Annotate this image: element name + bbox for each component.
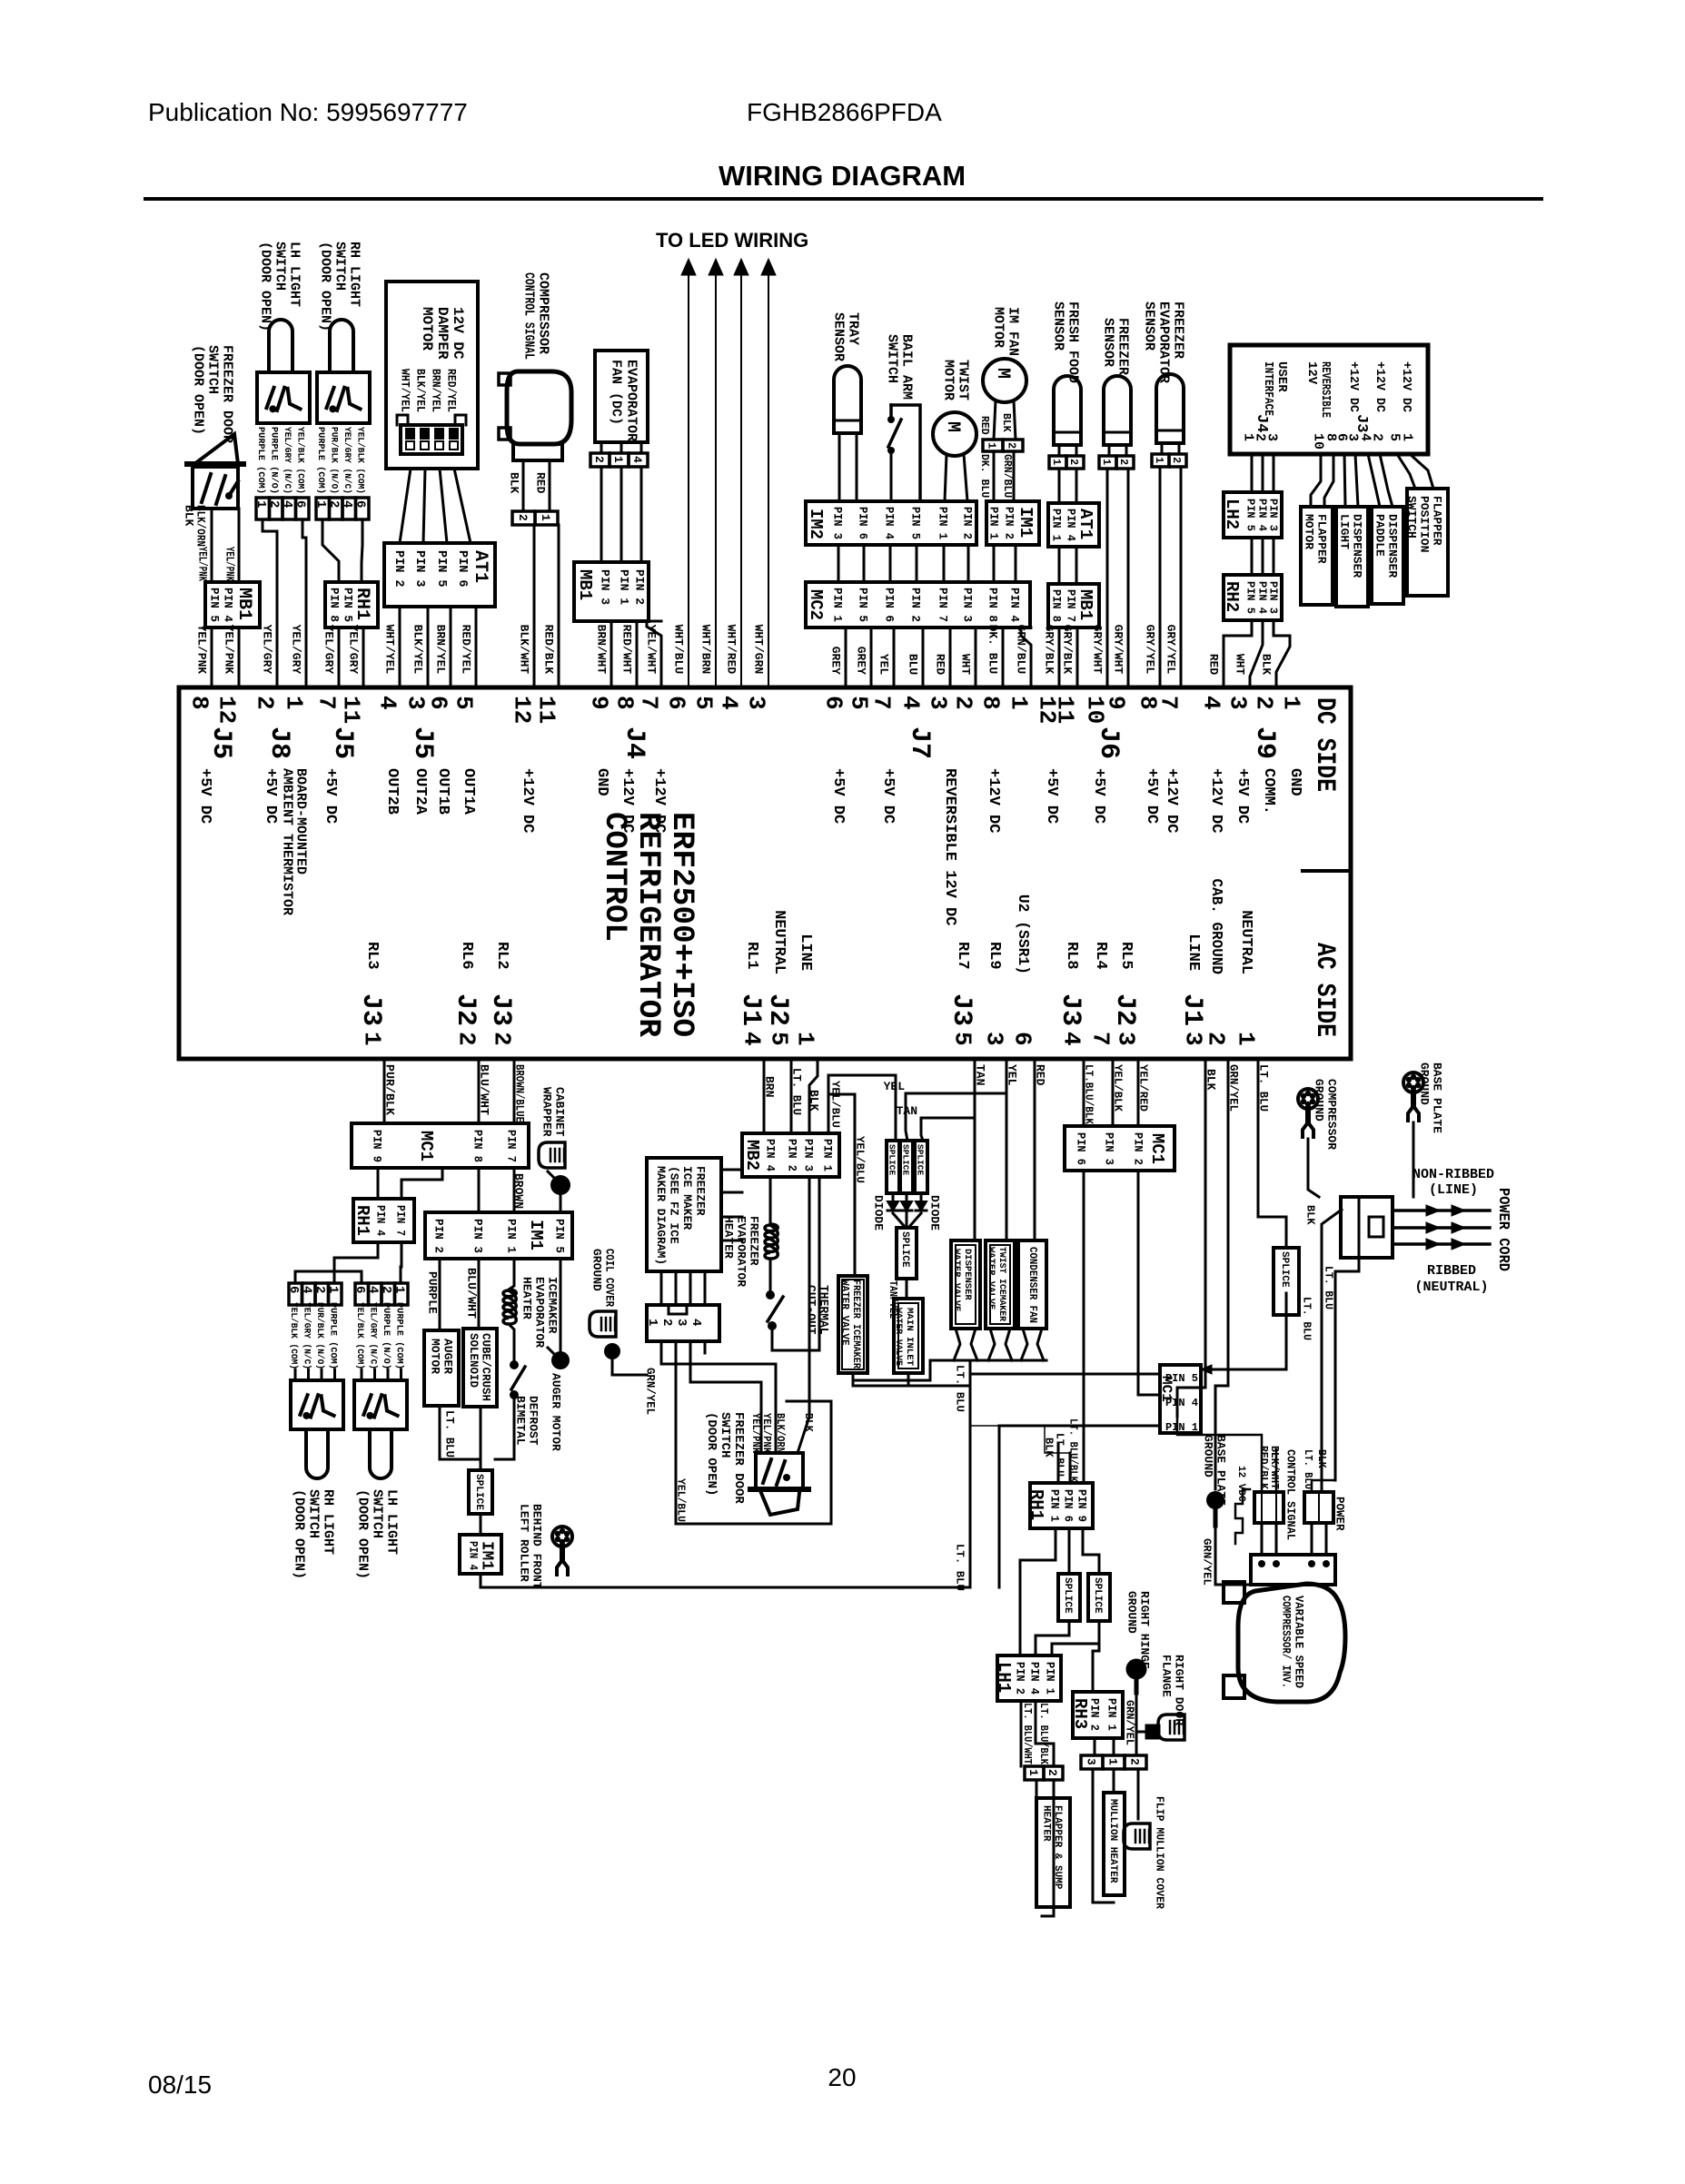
svg-text:RH LIGHT: RH LIGHT [347,242,362,307]
svg-text:RIBBED: RIBBED [1427,1263,1476,1279]
svg-text:PIN 8: PIN 8 [327,588,341,622]
svg-text:PIN 2: PIN 2 [908,588,922,622]
svg-text:WATER VALVE: WATER VALVE [839,1280,850,1346]
lower LH switch connector 6 4 2 1 [355,1283,369,1305]
wire MC1 pin6 long down to RH1 (lower right) [1083,1171,1085,1483]
control signal staircase symbol [1235,1489,1250,1544]
wires LH2 to RH2 [1251,538,1254,575]
svg-text:+5V DC: +5V DC [196,768,213,824]
tray sensor leads [838,433,841,501]
svg-text:PIN 5: PIN 5 [434,550,448,588]
svg-text:8: 8 [186,696,213,710]
svg-text:YEL/BLU: YEL/BLU [854,1136,867,1183]
svg-text:J2: J2 [450,993,481,1026]
connector LH1 [997,1655,1061,1701]
svg-text:J3: J3 [355,993,386,1026]
LH light switch [257,372,310,423]
connector MB1 (freezer door switch) [205,582,260,628]
svg-text:8: 8 [977,696,1005,710]
wire mullion heater circuit [1094,1738,1096,1755]
svg-text:PIN 2: PIN 2 [431,1219,445,1253]
svg-text:1: 1 [313,500,328,508]
wires user interface J4 to LH2 [1251,454,1254,492]
base plate ground terminal (lower) [1206,1491,1224,1509]
svg-text:SPLICE: SPLICE [899,1231,910,1268]
svg-text:GROUND: GROUND [1201,1435,1214,1477]
wire J1-2 GRN/YEL down to base plate ground [1215,1059,1228,1489]
LT. BLU bus below valves [930,1359,1046,1362]
svg-text:DISPENSER: DISPENSER [1385,514,1399,578]
svg-text:7: 7 [1087,1032,1115,1046]
svg-text:PIN 5: PIN 5 [341,588,354,622]
svg-text:4: 4 [689,1319,703,1326]
wire YEL branch to splice 2 [906,1093,1006,1141]
svg-text:M: M [992,368,1013,379]
svg-text:CONDENSER FAN: CONDENSER FAN [1026,1247,1038,1323]
wires RH2 to board J9 [1224,620,1252,687]
svg-text:+5V DC: +5V DC [1043,768,1060,824]
svg-text:SENSOR: SENSOR [1101,318,1116,367]
svg-text:VARIABLE SPEED: VARIABLE SPEED [1292,1596,1305,1688]
wire J1-3 BLK down [1177,1059,1205,1417]
svg-text:BLK: BLK [1304,1205,1317,1225]
svg-text:PIN 7: PIN 7 [936,588,949,622]
defrost bimetal switch [510,1360,519,1369]
svg-text:+5V DC: +5V DC [262,768,279,824]
wire right hinge ground to connector cell 2 [1135,1693,1138,1755]
power cord plug block [1341,1197,1393,1258]
svg-text:REVERSIBLE 12V DC: REVERSIBLE 12V DC [941,768,958,925]
right door flange stub [1146,1725,1159,1738]
svg-text:(DOOR OPEN): (DOOR OPEN) [258,242,273,331]
wire cell2 to flip mullion cover [1137,1769,1140,1819]
svg-text:MAKER DIAGRAM): MAKER DIAGRAM) [654,1166,668,1265]
connector 2|1 (control signal) [512,511,535,525]
svg-text:2: 2 [950,696,977,710]
svg-text:GREY: GREY [854,647,867,675]
svg-text:YEL/PNK: YEL/PNK [223,547,236,581]
wire cell3 down and loop [1093,1769,1114,1902]
svg-text:WATER VALVE: WATER VALVE [986,1247,996,1309]
fresh food sensor leads [1058,445,1061,456]
svg-text:6: 6 [353,500,368,508]
svg-text:POWER CORD: POWER CORD [1494,1188,1512,1271]
IM fan motor leads [994,400,996,440]
svg-text:Publication No: 5995697777: Publication No: 5995697777 [148,98,468,126]
svg-text:DC SIDE: DC SIDE [1309,697,1340,792]
wire J3-5 TAN to dispenser water valve [974,1059,976,1240]
compressor ground terminal [1298,1089,1318,1109]
svg-text:PIN 1: PIN 1 [617,569,630,605]
wire splice to IM1 pin4 box [480,1514,482,1535]
svg-text:1: 1 [281,696,308,710]
svg-text:FLAPPER & SUMP: FLAPPER & SUMP [1052,1805,1063,1890]
icemaker evaporator heater coil [503,1290,516,1324]
svg-text:4: 4 [280,500,294,508]
svg-text:YEL/BLU: YEL/BLU [829,1081,842,1128]
svg-text:RL1: RL1 [743,942,760,970]
svg-text:YEL/BLU: YEL/BLU [675,1478,688,1522]
svg-text:PIN 8: PIN 8 [986,588,999,622]
svg-text:PIN 4: PIN 4 [1028,1662,1041,1695]
svg-text:PIN 9: PIN 9 [370,1130,383,1162]
svg-text:2: 2 [489,1032,516,1046]
svg-text:PIN 6: PIN 6 [1062,1489,1075,1522]
svg-text:PUR/BLK: PUR/BLK [382,1064,396,1115]
svg-text:AT1: AT1 [1075,509,1095,539]
svg-text:RL8: RL8 [1063,942,1080,970]
svg-text:CUT-OUT: CUT-OUT [804,1285,818,1335]
splice A (lower) [1058,1574,1080,1621]
svg-text:+12V DC: +12V DC [619,768,636,833]
svg-text:BLK: BLK [1043,1438,1056,1458]
svg-text:1: 1 [1050,459,1063,465]
splice 2 (diode pack) [900,1141,913,1193]
wire BLK to RH1 pin9 from top [1057,1444,1060,1483]
svg-text:MULLION HEATER: MULLION HEATER [1107,1799,1118,1883]
svg-text:LH LIGHT: LH LIGHT [384,1489,400,1555]
svg-text:LT. BLU/BLK: LT. BLU/BLK [1037,1703,1049,1764]
svg-text:YEL/RED: YEL/RED [1137,1064,1150,1112]
svg-text:5: 5 [766,1032,793,1046]
svg-text:3: 3 [1084,1758,1097,1765]
svg-text:BLK: BLK [1259,654,1273,676]
wires diodes converge to splice [892,1193,895,1201]
wires RH1 to lower light switch connectors [334,1242,378,1283]
svg-text:11: 11 [533,696,560,724]
svg-text:PIN 4: PIN 4 [1064,509,1077,541]
wires AT1 to MB1 [1058,547,1061,584]
svg-text:RED: RED [978,416,990,435]
svg-text:IM2: IM2 [806,509,826,539]
wire splice B to LH1 pin1 and RH3 pin2 [1052,1621,1099,1655]
svg-text:PIN 4: PIN 4 [1256,581,1269,614]
svg-text:PIN 1: PIN 1 [1048,1489,1061,1522]
svg-text:GND: GND [593,768,610,796]
wires LH1 to 1|2 connector [1020,1701,1023,1766]
svg-text:WHT/GRN: WHT/GRN [751,625,765,675]
wire MC1 to RH1 pin7 jog [401,1168,442,1199]
wire J3-1 to MC1 pin9 PUR/BLK [383,1059,386,1123]
svg-text:LIGHT: LIGHT [1337,514,1351,549]
svg-text:HEATER: HEATER [721,1216,735,1259]
svg-text:IM1: IM1 [478,1541,496,1570]
svg-text:FREEZER: FREEZER [747,1216,760,1266]
svg-text:BLK/WHT: BLK/WHT [517,625,530,675]
connector strip 3 1 2 (mullion) [1081,1755,1103,1769]
freezer sensor connector 1|2 [1099,456,1116,469]
svg-text:4: 4 [897,696,925,710]
wire MC1 pin1 horizontal [999,1425,1160,1428]
condenser fan box [1018,1240,1046,1329]
svg-text:SENSOR: SENSOR [1051,301,1066,351]
svg-text:RH1: RH1 [352,1205,372,1236]
svg-text:GRY/YEL: GRY/YEL [1164,625,1177,675]
wire IM1 pin5 down to auger motor [560,1259,562,1352]
svg-text:BLK/WHT: BLK/WHT [1268,1446,1280,1489]
svg-text:6: 6 [293,500,308,508]
svg-text:J6: J6 [1093,726,1124,759]
svg-text:PIN 3: PIN 3 [830,507,844,539]
svg-text:BLK/YEL: BLK/YEL [411,625,424,675]
svg-text:J4: J4 [1253,414,1270,432]
svg-text:1: 1 [986,442,998,449]
svg-text:YEL/PNK: YEL/PNK [749,1413,761,1453]
svg-text:(DOOR OPEN): (DOOR OPEN) [191,345,206,435]
svg-text:6: 6 [1009,1032,1036,1046]
svg-text:(DOOR OPEN): (DOOR OPEN) [292,1489,307,1579]
freezer sensor bulb [1104,376,1131,445]
svg-text:1: 1 [326,1286,341,1293]
svg-text:MOTOR: MOTOR [991,307,1006,348]
wire compressor ground down [1308,1139,1319,1197]
svg-text:9: 9 [586,696,613,710]
svg-text:YEL/GRY (N/C): YEL/GRY (N/C) [342,427,352,494]
wires MB1 to board J4 pins 9 8 7 [610,621,613,687]
control board DC/AC divider [1303,869,1351,873]
svg-text:AUGER MOTOR: AUGER MOTOR [549,1373,562,1451]
svg-text:(LINE): (LINE) [1429,1182,1478,1198]
svg-text:PUR/BLK (N/O): PUR/BLK (N/O) [329,427,340,494]
svg-text:6: 6 [286,1286,301,1293]
wire icemaker pin4 stub [704,1341,707,1353]
wires control signal to connector 2|1 [522,460,525,511]
svg-text:PIN 5: PIN 5 [908,507,922,539]
auger motor box [424,1330,459,1406]
svg-text:PIN 3: PIN 3 [1102,1132,1115,1165]
connector RH1 (lower) [353,1199,414,1242]
wire base plate ground lower grn/yel [1215,1526,1251,1585]
svg-text:GND: GND [1286,768,1303,796]
main inlet water valve box [894,1299,923,1373]
svg-text:RED/WHT: RED/WHT [619,625,633,675]
compressor control signal base [513,444,562,460]
svg-text:SENSOR: SENSOR [831,312,847,361]
svg-text:PIN 3: PIN 3 [960,588,974,622]
svg-text:OUT1A: OUT1A [460,768,477,815]
svg-text:PIN 5: PIN 5 [1165,1372,1198,1385]
svg-text:BLU/WHT: BLU/WHT [477,1064,491,1115]
svg-text:YEL/GRY (N/C): YEL/GRY (N/C) [282,427,292,494]
IM fan motor circle [983,359,1026,402]
svg-text:LT. BLU: LT. BLU [954,1365,966,1412]
svg-text:1: 1 [792,1032,819,1046]
wire J3-2 to MC1 pin7 BROWN/BLUE [513,1059,516,1123]
wire IM1 pin2 PURPLE to auger motor box [439,1259,441,1330]
wires freezer ice maker to icemaker connector [660,1271,663,1305]
freezer icemaker water valve box [838,1276,867,1373]
wire MC1 pin4 from MC1-right pin2 [1138,1171,1160,1395]
svg-text:PIN 4: PIN 4 [467,1541,480,1570]
big wire loop (freezer door switch circuit) [676,1341,831,1524]
svg-text:+12V DC: +12V DC [1399,361,1413,413]
svg-text:RED/BLK: RED/BLK [541,625,555,675]
svg-text:WHT: WHT [1233,654,1246,676]
wire lt.blu plug to power connector [1335,1258,1359,1480]
svg-text:PIN 2: PIN 2 [1002,507,1016,539]
right door flange coil [1158,1715,1184,1740]
compressor control signal module [507,371,571,444]
svg-text:BLK: BLK [807,1090,820,1112]
svg-text:+12V DC: +12V DC [650,768,668,833]
svg-text:GRN/YEL: GRN/YEL [1124,1700,1136,1745]
wire power cord BLK down [1322,1210,1342,1492]
svg-text:4: 4 [630,456,644,463]
connector IM1 (lower long) [425,1212,572,1259]
svg-text:AUGER: AUGER [441,1339,454,1374]
svg-text:4: 4 [366,1286,381,1293]
wire J2-1 BLK to MB2 pin3 [809,1059,818,1133]
wires evap fan box to connector [600,442,603,453]
wire into splice [480,1459,482,1470]
svg-text:4: 4 [374,696,401,710]
thermal cut-out switch [766,1290,775,1300]
LH switch connector 1 2 4 6 [256,498,270,519]
svg-text:MC2: MC2 [806,589,826,620]
wire LT. BLU to RH1 pin6 [1069,1453,1072,1483]
svg-text:WIRING DIAGRAM: WIRING DIAGRAM [719,160,966,192]
svg-text:PIN 7: PIN 7 [393,1205,407,1236]
svg-text:PIN 5: PIN 5 [552,1219,566,1253]
svg-text:J1: J1 [735,993,766,1026]
wire J2-3 YEL/RED to MC1 pin2 [1137,1059,1140,1126]
dispenser water valve box [951,1240,980,1329]
svg-text:2: 2 [1203,1032,1230,1046]
svg-text:4: 4 [300,1286,314,1293]
svg-text:YEL/GRY: YEL/GRY [260,625,273,675]
svg-text:3: 3 [674,1319,689,1326]
svg-text:PIN 2: PIN 2 [1131,1132,1145,1165]
svg-text:RH LIGHT: RH LIGHT [321,1489,336,1555]
svg-text:1: 1 [1153,457,1165,463]
svg-text:LH1: LH1 [994,1662,1014,1693]
svg-text:USER: USER [1274,361,1289,392]
svg-text:5: 5 [690,696,718,710]
svg-text:YEL: YEL [877,654,890,676]
svg-text:PIN 1: PIN 1 [1044,1662,1056,1695]
svg-text:FRESH FOOD: FRESH FOOD [1066,301,1081,383]
svg-text:PIN 8: PIN 8 [1049,589,1063,622]
svg-text:SPLICE: SPLICE [1062,1577,1073,1614]
bail arm switch symbol [891,405,920,501]
svg-text:WATER VALVE: WATER VALVE [893,1308,904,1366]
svg-text:1: 1 [1233,1032,1260,1046]
flip mullion cover coil [1124,1823,1150,1849]
svg-text:FLIP MULLION COVER: FLIP MULLION COVER [1154,1796,1166,1910]
svg-text:(NEUTRAL): (NEUTRAL) [1414,1280,1488,1295]
svg-text:7: 7 [868,696,896,710]
svg-text:J3: J3 [485,993,516,1026]
svg-text:7: 7 [1155,696,1183,710]
svg-text:GRY/YEL: GRY/YEL [1143,625,1156,675]
connector RH2 [1224,575,1282,620]
svg-text:GRY/WHT: GRY/WHT [1090,625,1104,675]
svg-text:REVERSIBLE: REVERSIBLE [1318,361,1333,418]
connector MB2 [742,1133,839,1177]
connector IM2 [806,501,976,545]
svg-text:2: 2 [1170,457,1183,463]
svg-text:YEL/BLK (COM): YEL/BLK (COM) [295,427,306,494]
wires IM fan connector to IM1 [993,451,996,501]
wire MC1 pin7 down to IM1 pin1 BROWN [513,1168,516,1212]
svg-text:BASE PLATE: BASE PLATE [1430,1062,1443,1133]
svg-text:FAN (DC): FAN (DC) [609,360,624,425]
svg-text:BRN: BRN [762,1076,776,1097]
svg-text:GREY: GREY [828,647,842,675]
svg-text:MC1: MC1 [416,1131,436,1161]
svg-text:SOLENOID: SOLENOID [467,1333,480,1388]
svg-text:OUT2A: OUT2A [411,768,429,815]
svg-text:COMPRESSOR: COMPRESSOR [536,272,551,354]
svg-text:NON-RIBBED: NON-RIBBED [1412,1167,1494,1182]
svg-text:4: 4 [340,500,354,508]
connector AT1 (fresh food sensor) [1048,503,1099,547]
svg-text:9: 9 [1103,696,1130,710]
svg-text:2: 2 [1006,442,1018,449]
wire IM1 pin4 to bottom bus [481,1574,970,1587]
svg-text:RED/YEL: RED/YEL [459,625,472,675]
svg-text:DK. BLU: DK. BLU [986,625,999,675]
connector 1|2 (IM fan) [983,440,1003,451]
svg-text:PIN 4: PIN 4 [1165,1397,1198,1409]
svg-text:DISPENSER: DISPENSER [1350,514,1363,578]
svg-text:J2: J2 [1109,993,1140,1026]
svg-text:RL5: RL5 [1117,942,1135,970]
wires MB1 to board J6 pins 12 11 [1058,628,1061,687]
svg-text:PURPLE (COM): PURPLE (COM) [328,1302,339,1369]
wires damper motor to AT1 [400,469,411,543]
svg-text:LINE: LINE [1184,934,1202,971]
wire J1-4 BRN to MB2 pin4 [763,1059,766,1133]
wire J3-6 RED to condenser fan [1034,1059,1036,1240]
svg-text:DAMPER: DAMPER [434,307,451,360]
svg-text:WATER VALVE: WATER VALVE [951,1249,962,1311]
svg-text:LT. BLU: LT. BLU [1323,1266,1335,1309]
svg-text:PIN 2: PIN 2 [785,1139,798,1171]
wire splice to main inlet water valve [906,1279,908,1299]
svg-text:2: 2 [252,696,279,710]
svg-text:BRN/WHT: BRN/WHT [594,625,608,675]
freezer door switch (top left) [187,461,243,467]
svg-text:RL7: RL7 [954,942,971,970]
svg-text:AC SIDE: AC SIDE [1309,943,1340,1037]
connector IM1 PIN 4 box [460,1535,501,1574]
svg-text:LT. BLU: LT. BLU [442,1410,456,1458]
base plate ground terminal (upper) [1403,1072,1423,1092]
svg-text:WHT/BLU: WHT/BLU [671,625,685,675]
svg-text:1: 1 [1026,1769,1040,1776]
svg-text:PURPLE: PURPLE [425,1271,439,1314]
svg-text:BLK: BLK [507,472,520,494]
wire IM1 pin1 to defrost bimetal [509,1259,514,1290]
wire TAN branch to splice 3 [921,1118,975,1141]
evaporator fan connector 2 1 4 [590,453,610,467]
wire YEL/BLU down to freezer icemaker water valve [828,1094,855,1276]
svg-text:IM FAN: IM FAN [1006,307,1021,356]
svg-text:PIN 8: PIN 8 [471,1130,484,1162]
svg-text:GRN/YEL: GRN/YEL [1201,1538,1214,1586]
svg-text:PIN 1: PIN 1 [1049,509,1063,541]
title rule [145,197,1541,201]
svg-text:J9: J9 [1249,726,1280,759]
svg-text:EVAPORATOR: EVAPORATOR [624,360,639,441]
svg-text:PIN 1: PIN 1 [504,1219,518,1253]
svg-text:WHT/YEL: WHT/YEL [382,625,396,675]
svg-text:PIN 2: PIN 2 [1088,1698,1101,1731]
freezer evap sensor connector 1|2 [1152,454,1169,467]
svg-text:3: 3 [743,696,770,710]
svg-text:BASE PLATE: BASE PLATE [1214,1435,1227,1506]
